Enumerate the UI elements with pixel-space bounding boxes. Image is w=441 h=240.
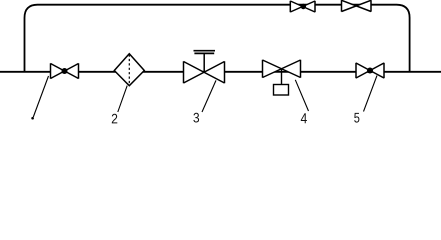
valve 1 (51, 63, 79, 78)
leader line for valve 1 (31, 76, 48, 119)
filter 2 (114, 54, 144, 86)
stem of valve 4 (281, 69, 283, 85)
leader line for valve 4 (295, 80, 308, 111)
stem of valve 3 (203, 54, 205, 72)
leader line for valve 3 (202, 80, 216, 112)
bypass valve B (342, 0, 372, 12)
actuator box of valve 4 (274, 85, 289, 96)
label 4 (301, 113, 307, 123)
leader line for valve 5 (364, 76, 378, 112)
wire main pipe (0, 71, 441, 73)
valve 3 (184, 61, 225, 83)
leader line for filter 2 (118, 86, 127, 112)
label 5 (354, 113, 359, 123)
top bars of valve 3 (194, 51, 216, 54)
label 2 (112, 114, 117, 124)
label 3 (193, 113, 199, 123)
valve 4 (263, 60, 301, 78)
valve 5 (356, 63, 384, 78)
bypass valve A (290, 1, 315, 12)
wire bypass pipe (25, 5, 410, 72)
